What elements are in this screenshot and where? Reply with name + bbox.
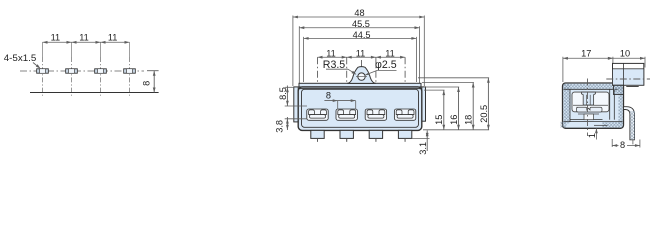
svg-text:8: 8 (620, 140, 625, 150)
svg-text:45.5: 45.5 (352, 19, 370, 29)
svg-text:48: 48 (354, 8, 364, 18)
svg-text:11: 11 (79, 32, 89, 42)
svg-text:4-5x1.5: 4-5x1.5 (4, 53, 37, 63)
svg-text:1: 1 (587, 133, 597, 138)
svg-text:8: 8 (142, 81, 152, 86)
svg-text:8: 8 (326, 90, 331, 100)
svg-text:18: 18 (464, 115, 474, 125)
svg-text:11: 11 (326, 48, 336, 58)
svg-text:20.5: 20.5 (479, 105, 489, 123)
svg-text:φ2.5: φ2.5 (375, 59, 397, 71)
svg-text:11: 11 (51, 32, 61, 42)
svg-text:44.5: 44.5 (353, 30, 371, 40)
svg-text:15: 15 (434, 115, 444, 125)
svg-text:16: 16 (449, 115, 459, 125)
svg-text:11: 11 (385, 48, 395, 58)
svg-text:10: 10 (620, 48, 630, 58)
svg-text:8.5: 8.5 (278, 87, 288, 100)
svg-text:17: 17 (581, 48, 591, 58)
svg-text:11: 11 (108, 32, 118, 42)
svg-text:11: 11 (356, 48, 366, 58)
svg-text:3.1: 3.1 (418, 142, 428, 155)
svg-text:3.8: 3.8 (275, 120, 285, 133)
